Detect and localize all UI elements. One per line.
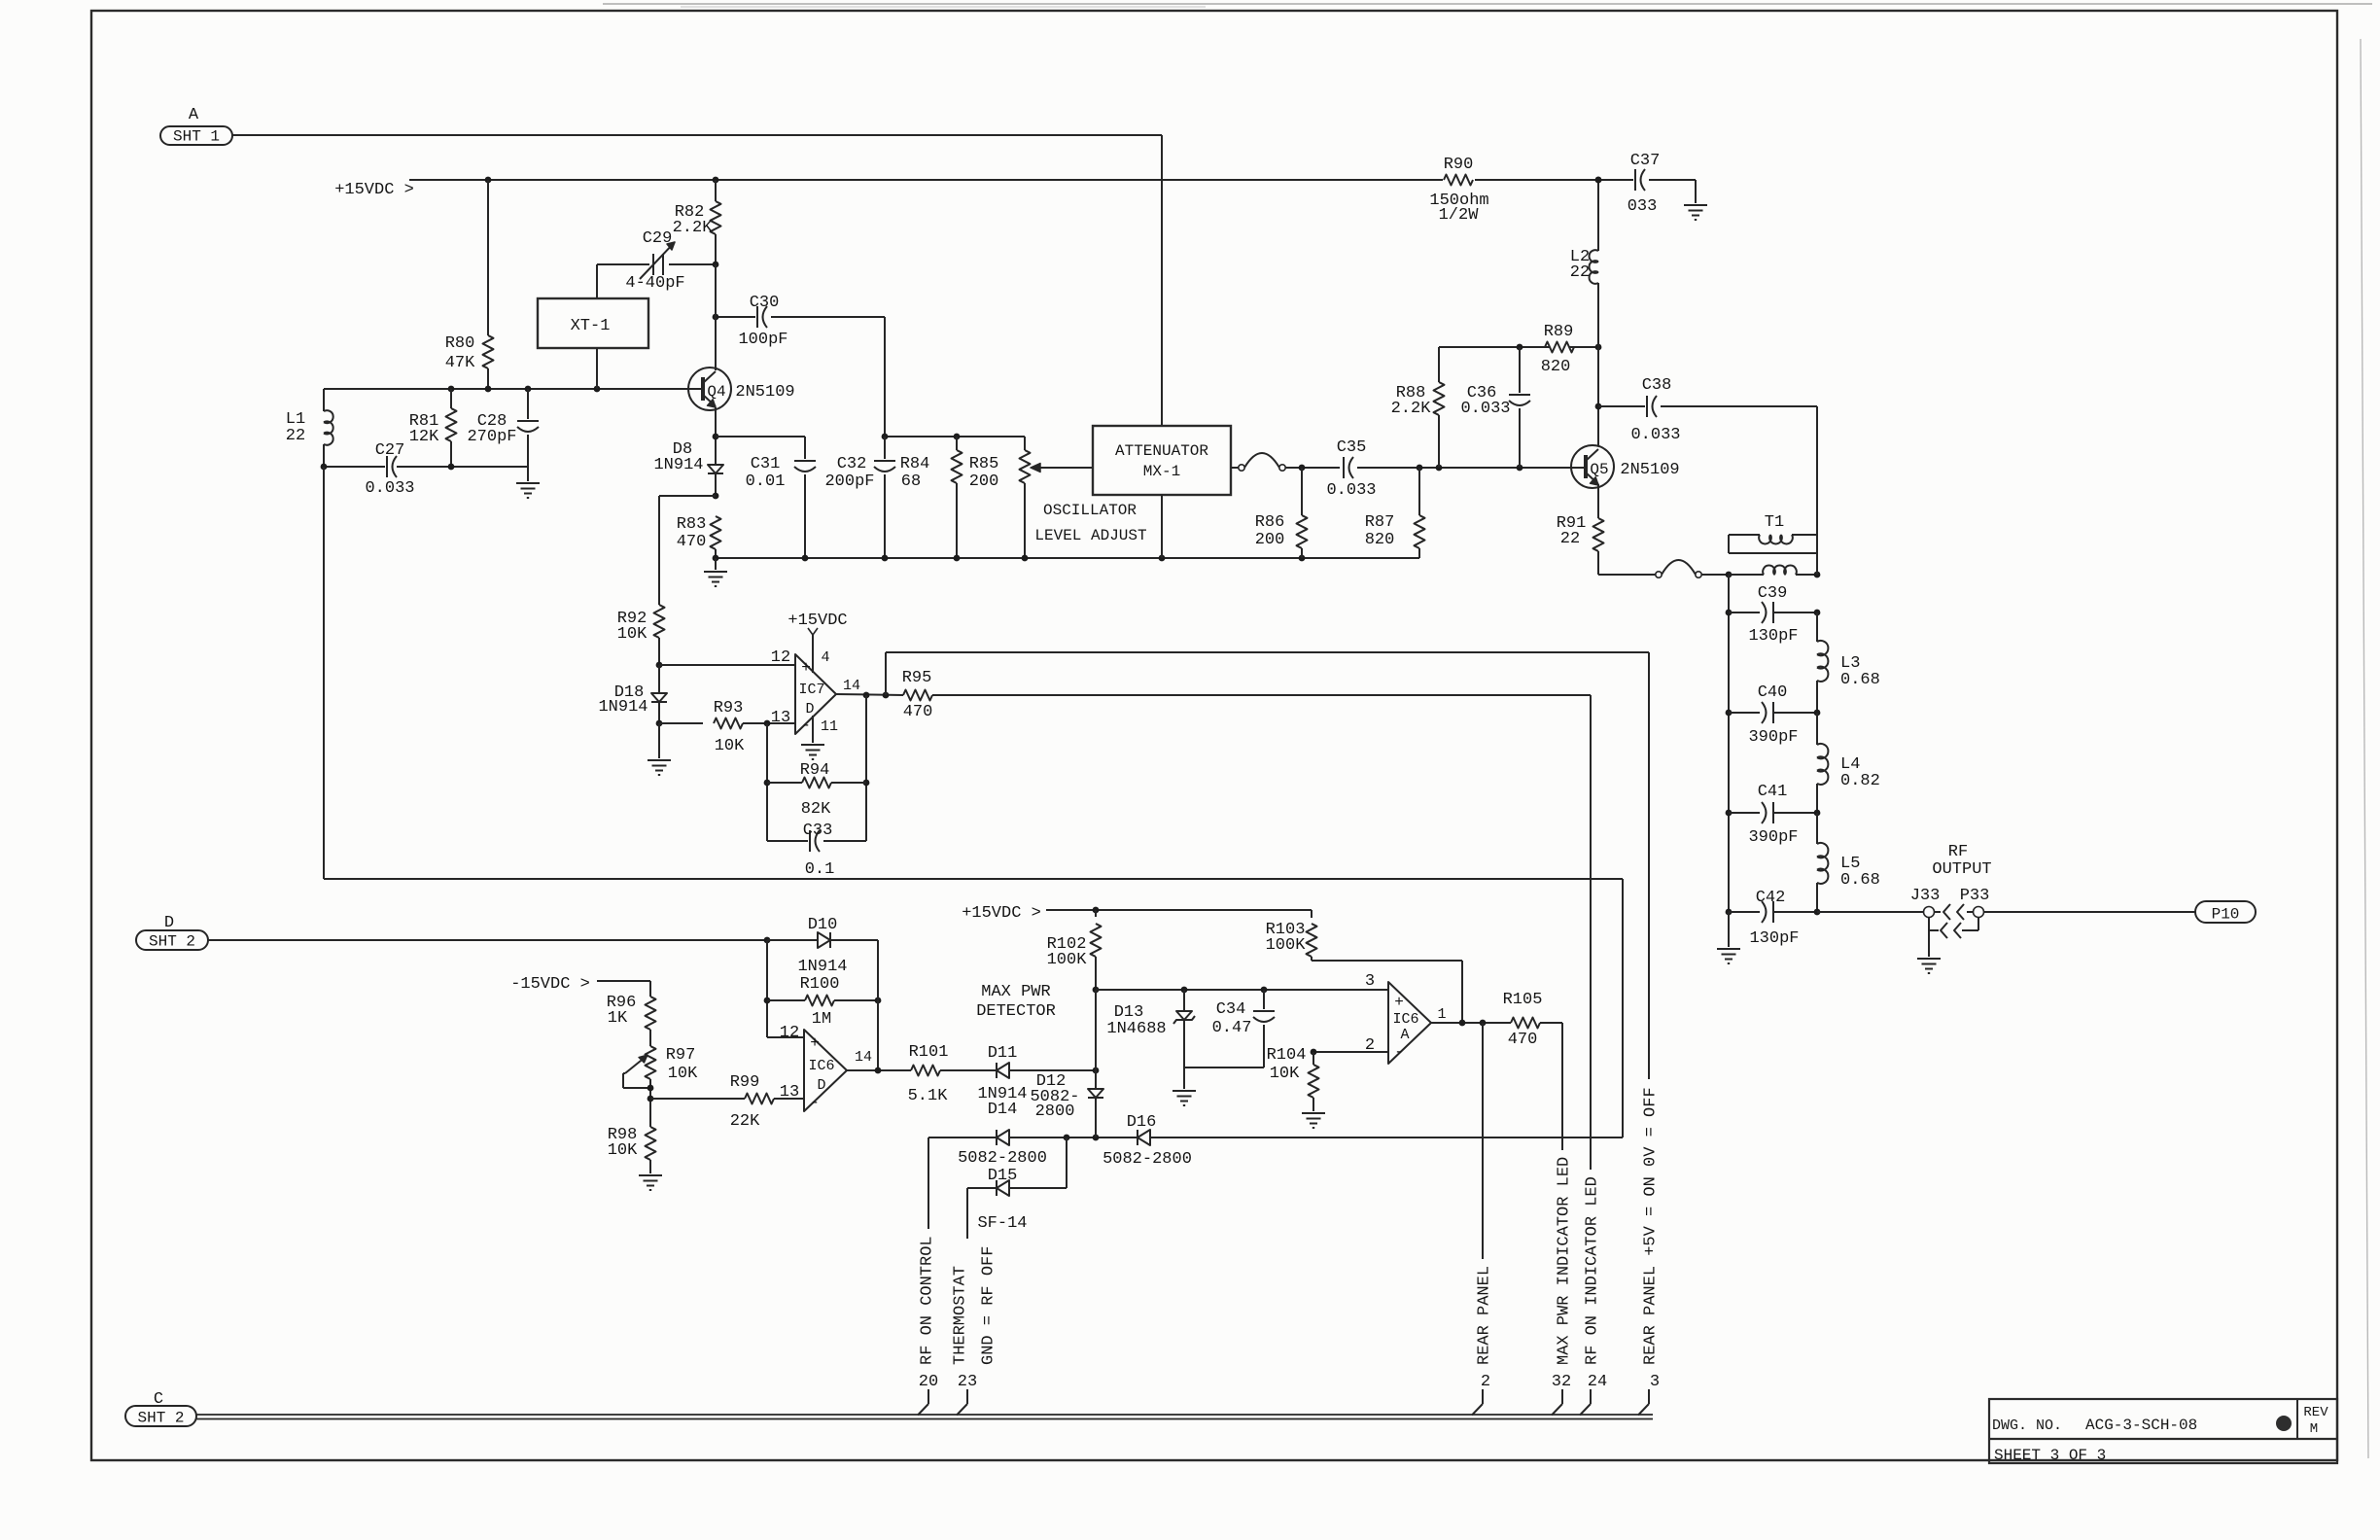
capacitor C34 <box>1212 990 1275 1067</box>
svg-text:D11: D11 <box>988 1044 1018 1063</box>
svg-text:82K: 82K <box>801 800 831 819</box>
svg-text:D16: D16 <box>1127 1113 1157 1132</box>
wire IC7 output feedback riser to right rail <box>886 652 1649 695</box>
svg-text:14: 14 <box>843 678 860 694</box>
resistor R105 <box>1503 991 1562 1049</box>
svg-text:R101: R101 <box>909 1043 949 1062</box>
svg-text:2.2K: 2.2K <box>1391 400 1432 418</box>
wire filter left rail <box>1726 575 1732 915</box>
title block <box>1989 1399 2337 1464</box>
svg-text:47K: 47K <box>445 354 475 372</box>
svg-text:RF ON INDICATOR LED: RF ON INDICATOR LED <box>1584 1176 1602 1365</box>
op-amp IC6 section D <box>780 1024 872 1111</box>
zener diode D13 1N4688 <box>1106 990 1195 1067</box>
resistor R95 <box>902 669 1591 721</box>
inductor L4 <box>1817 713 1880 813</box>
wire IC6A pin 2 row <box>1311 1049 1388 1056</box>
svg-text:DWG. NO.: DWG. NO. <box>1992 1417 2062 1434</box>
svg-text:0.68: 0.68 <box>1840 671 1880 689</box>
svg-text:1: 1 <box>1437 1006 1446 1023</box>
capacitor C28 <box>467 389 539 467</box>
svg-text:1N914: 1N914 <box>598 698 647 717</box>
svg-text:4: 4 <box>821 649 829 666</box>
diode D18 1N914 <box>598 665 667 723</box>
svg-text:REAR PANEL: REAR PANEL <box>1476 1266 1494 1365</box>
svg-text:C35: C35 <box>1337 438 1367 457</box>
resistor R87 <box>1365 468 1425 558</box>
svg-text:R99: R99 <box>730 1073 760 1092</box>
svg-text:R80: R80 <box>445 334 475 353</box>
wire Q5 base rail <box>1285 465 1584 472</box>
svg-text:033: 033 <box>1627 197 1658 216</box>
svg-text:D: D <box>817 1077 825 1094</box>
wire oscillator common rail <box>713 555 1419 562</box>
connector chevrons J33-P33 <box>1929 904 1978 938</box>
svg-text:12: 12 <box>780 1024 799 1042</box>
svg-text:22: 22 <box>1570 263 1590 282</box>
node D sheet connector SHT 2 <box>136 914 208 951</box>
svg-text:C30: C30 <box>750 294 780 312</box>
wire REAR PANEL +5V output pin 3 <box>1638 652 1661 1416</box>
svg-text:C31: C31 <box>751 455 781 473</box>
svg-text:10K: 10K <box>715 737 745 755</box>
svg-text:2800: 2800 <box>1035 1102 1075 1121</box>
svg-text:SHT 2: SHT 2 <box>137 1410 184 1427</box>
capacitor C35 <box>1326 438 1376 500</box>
svg-text:-15VDC >: -15VDC > <box>510 975 590 994</box>
svg-text:+15VDC >: +15VDC > <box>334 181 414 199</box>
transistor Q5 2N5109 <box>1571 445 1680 488</box>
wire Q4 base rail <box>324 386 701 393</box>
svg-text:10K: 10K <box>668 1065 698 1083</box>
resistor R94 <box>767 761 866 819</box>
capacitor C41 <box>1729 783 1820 847</box>
svg-text:R100: R100 <box>800 975 840 994</box>
resistor R86 <box>1255 468 1308 558</box>
svg-text:+15VDC: +15VDC <box>787 612 847 630</box>
svg-text:DETECTOR: DETECTOR <box>976 1002 1056 1021</box>
svg-text:R93: R93 <box>714 699 744 717</box>
svg-text:13: 13 <box>771 709 790 727</box>
svg-text:22: 22 <box>1560 530 1580 548</box>
resistor R96 <box>607 994 656 1046</box>
capacitor C29 variable <box>597 229 718 293</box>
svg-text:D10: D10 <box>808 916 838 934</box>
net label +15VDC top left <box>334 181 414 199</box>
svg-text:C41: C41 <box>1758 783 1788 801</box>
wire -15VDC feed <box>597 981 650 997</box>
wire rail riser to left loop <box>324 467 1623 1137</box>
svg-text:1K: 1K <box>608 1009 628 1028</box>
svg-text:C38: C38 <box>1642 376 1672 395</box>
svg-text:100K: 100K <box>1266 936 1307 955</box>
crystal XT-1 box <box>538 264 648 389</box>
svg-text:M: M <box>2310 1421 2318 1437</box>
svg-text:390pF: 390pF <box>1748 828 1798 847</box>
svg-text:+: + <box>1394 994 1404 1011</box>
resistor R100 <box>767 975 881 1029</box>
svg-text:22K: 22K <box>730 1112 760 1131</box>
wire net D from SHT2 bubble to D10 <box>208 937 818 944</box>
diode D16 5082-2800 <box>1102 1113 1192 1169</box>
svg-text:2N5109: 2N5109 <box>735 383 794 402</box>
wire C32 R84 R85 top rail <box>882 434 1025 440</box>
svg-text:OUTPUT: OUTPUT <box>1932 860 1991 879</box>
node P10 sheet connector <box>2195 901 2256 924</box>
wire IC7 pin 11 to ground <box>812 716 814 743</box>
svg-text:LEVEL ADJUST: LEVEL ADJUST <box>1034 527 1146 544</box>
wire D10 R100 left rail <box>764 940 804 1037</box>
svg-text:IC6: IC6 <box>808 1058 834 1074</box>
svg-text:REAR PANEL +5V = ON 0V = OFF: REAR PANEL +5V = ON 0V = OFF <box>1642 1087 1661 1365</box>
connector P33 <box>1960 887 1990 930</box>
svg-text:820: 820 <box>1365 531 1395 549</box>
svg-text:MAX PWR INDICATOR LED: MAX PWR INDICATOR LED <box>1556 1157 1574 1365</box>
wire D13 C34 bottom row <box>1184 1067 1264 1068</box>
svg-text:100pF: 100pF <box>738 331 787 349</box>
diode D15 SF-14 <box>967 1137 1067 1233</box>
svg-text:13: 13 <box>780 1083 799 1102</box>
net label -15VDC <box>510 975 590 994</box>
svg-text:SHT 2: SHT 2 <box>149 933 195 951</box>
svg-text:MX-1: MX-1 <box>1143 463 1180 480</box>
svg-text:1M: 1M <box>812 1010 831 1029</box>
svg-text:2.2K: 2.2K <box>673 219 714 237</box>
resistor R93 <box>659 699 795 755</box>
svg-text:0.033: 0.033 <box>1630 426 1680 444</box>
capacitor C33 <box>767 822 866 879</box>
svg-text:2: 2 <box>1481 1373 1490 1391</box>
svg-text:C39: C39 <box>1758 584 1788 603</box>
wire R94 C33 feedback right rail <box>863 695 870 841</box>
resistor R81 <box>409 389 457 467</box>
svg-text:+15VDC >: +15VDC > <box>962 904 1041 923</box>
op-amp IC7 section D <box>771 648 860 735</box>
svg-text:200: 200 <box>969 472 999 491</box>
svg-text:D: D <box>805 701 814 717</box>
svg-text:100K: 100K <box>1047 951 1088 969</box>
inductor L2 <box>1570 177 1602 347</box>
svg-text:1N914: 1N914 <box>797 958 847 976</box>
svg-text:ATTENUATOR: ATTENUATOR <box>1115 442 1208 460</box>
capacitor C38 <box>1598 376 1817 535</box>
net label +15VDC at IC7 pin 4 <box>787 612 847 673</box>
svg-text:OSCILLATOR: OSCILLATOR <box>1043 502 1137 519</box>
capacitor C27 <box>365 441 414 498</box>
label MAX PWR DETECTOR <box>976 983 1056 1021</box>
svg-text:R90: R90 <box>1444 156 1474 174</box>
diode D10 1N914 <box>767 916 878 976</box>
resistor R104 <box>1267 1046 1319 1111</box>
svg-text:R94: R94 <box>800 761 830 780</box>
resistor R102 <box>1047 910 1102 990</box>
svg-text:R95: R95 <box>902 669 932 687</box>
resistor R103 <box>1266 910 1317 961</box>
svg-text:SF-14: SF-14 <box>977 1214 1027 1233</box>
wire D8 to R92 branch <box>659 493 718 605</box>
wire R98 to ground <box>649 1160 651 1173</box>
svg-text:R83: R83 <box>677 515 707 534</box>
resistor R90 <box>1429 156 1488 225</box>
svg-text:D14: D14 <box>988 1101 1018 1119</box>
wire Q4 collector <box>715 264 717 370</box>
inductor L1 <box>286 389 333 467</box>
svg-text:R86: R86 <box>1255 513 1285 532</box>
svg-text:C37: C37 <box>1630 152 1661 170</box>
wire IC6D output row <box>847 1067 911 1074</box>
svg-text:0.01: 0.01 <box>746 472 786 491</box>
wire R103 feedback to IC6A output <box>1312 961 1462 1023</box>
svg-text:68: 68 <box>901 472 921 491</box>
svg-text:470: 470 <box>1508 1031 1538 1049</box>
svg-text:P10: P10 <box>2212 906 2240 924</box>
diode D14 5082-2800 <box>958 1101 1047 1168</box>
ground below D18 <box>647 760 671 775</box>
svg-text:270pF: 270pF <box>467 428 516 446</box>
potentiometer R85 <box>969 437 1031 558</box>
capacitor C32 <box>824 437 895 558</box>
svg-text:470: 470 <box>903 703 933 721</box>
capacitor C42 <box>1729 889 1820 948</box>
inductor L5 <box>1817 813 1880 912</box>
wire D10 R100 right rail <box>877 940 879 1070</box>
svg-text:0.47: 0.47 <box>1212 1019 1252 1037</box>
wire Q5 emitter hop to T1 <box>1598 560 1732 577</box>
svg-text:T1: T1 <box>1765 513 1784 532</box>
ground below C37 <box>1684 205 1707 220</box>
svg-text:R84: R84 <box>900 455 930 473</box>
resistor R83 <box>677 515 721 558</box>
node C sheet connector SHT 2 bus <box>125 1390 196 1427</box>
wire D18 to ground <box>656 720 663 758</box>
wire IC6A output row <box>1431 1020 1511 1027</box>
svg-text:R85: R85 <box>969 455 999 473</box>
wire IC7 output node <box>836 692 903 699</box>
ground below D13 <box>1172 1067 1196 1105</box>
svg-text:10K: 10K <box>608 1141 638 1160</box>
wire R92 node to IC7 pin 12 <box>656 662 795 669</box>
wire RF ON CONTROL output pin 20 <box>918 1137 938 1416</box>
svg-text:C27: C27 <box>375 441 405 460</box>
svg-text:24: 24 <box>1588 1373 1607 1391</box>
svg-text:0.82: 0.82 <box>1840 772 1880 790</box>
capacitor C40 <box>1729 683 1820 747</box>
ground below filter ladder <box>1717 912 1740 963</box>
wire control diode rail <box>928 1135 1623 1141</box>
svg-text:C34: C34 <box>1216 1000 1246 1019</box>
svg-text:A: A <box>189 106 199 124</box>
svg-text:200pF: 200pF <box>824 472 874 491</box>
svg-text:12K: 12K <box>409 428 439 446</box>
svg-text:+: + <box>810 1034 820 1052</box>
svg-text:10K: 10K <box>617 625 647 644</box>
svg-text:D15: D15 <box>988 1167 1018 1185</box>
ground below J33 <box>1917 959 1941 973</box>
inductor L3 <box>1817 612 1880 713</box>
wire +15VDC rail <box>409 177 1598 184</box>
wire net C bus double line <box>196 1415 1653 1419</box>
ground below R98 <box>639 1175 662 1190</box>
svg-text:1/2W: 1/2W <box>1439 206 1480 225</box>
resistor R84 <box>900 437 962 558</box>
capacitor C31 <box>746 437 816 558</box>
resistor R101 <box>908 1043 997 1105</box>
wire +15VDC lower rail <box>1046 907 1312 914</box>
svg-text:5.1K: 5.1K <box>908 1087 949 1105</box>
wire max power detector node pin 3 row <box>1093 987 1388 994</box>
svg-text:820: 820 <box>1541 358 1571 376</box>
svg-text:Q5: Q5 <box>1590 461 1608 478</box>
wire net A from SHT1 bubble to attenuator input <box>232 135 1162 426</box>
svg-text:R89: R89 <box>1544 323 1574 341</box>
svg-text:11: 11 <box>821 718 838 735</box>
wire T1 right vertical <box>1816 535 1818 575</box>
wire RF ON INDICATOR LED output pin 24 <box>1580 695 1607 1416</box>
svg-text:5082-2800: 5082-2800 <box>1102 1150 1192 1169</box>
label RF OUTPUT <box>1932 843 1991 879</box>
diode D8 1N914 <box>653 440 723 496</box>
ground below IC7 <box>801 745 824 759</box>
svg-text:THERMOSTAT: THERMOSTAT <box>952 1266 970 1365</box>
wire Q4 emitter to C31 <box>713 407 805 465</box>
wire R97 node to R99 <box>647 1096 745 1102</box>
svg-text:C42: C42 <box>1756 889 1786 907</box>
diode D12 5082-2800 <box>1030 1072 1103 1137</box>
svg-text:10K: 10K <box>1270 1065 1300 1083</box>
net label +15VDC lower <box>962 904 1041 923</box>
svg-text:3: 3 <box>1650 1373 1660 1391</box>
wire THERMOSTAT output pin 23 <box>952 1188 998 1416</box>
svg-text:32: 32 <box>1552 1373 1571 1391</box>
svg-text:0.033: 0.033 <box>365 479 414 498</box>
svg-text:20: 20 <box>919 1373 938 1391</box>
svg-text:C33: C33 <box>803 822 833 840</box>
wire R94 C33 feedback left rail <box>764 723 771 841</box>
wire P33 to P10 <box>1983 911 2195 913</box>
wire C27 row <box>321 464 528 471</box>
svg-text:Q4: Q4 <box>707 383 725 401</box>
svg-text:+: + <box>801 659 811 677</box>
ground below R104 <box>1302 1113 1325 1128</box>
svg-text:R105: R105 <box>1503 991 1543 1009</box>
transformer T1 <box>1729 513 1820 577</box>
capacitor C39 <box>1729 584 1820 646</box>
svg-text:C29: C29 <box>643 229 673 248</box>
svg-text:R87: R87 <box>1365 513 1395 532</box>
label oscillator level adjust <box>1034 502 1146 544</box>
capacitor C36 <box>1460 347 1530 468</box>
svg-text:130pF: 130pF <box>1748 627 1798 646</box>
svg-text:12: 12 <box>771 648 790 667</box>
wire L2 to C38 node to Q5 collector <box>1595 347 1602 446</box>
resistor R98 <box>608 1126 656 1160</box>
resistor R82 <box>673 180 721 264</box>
svg-text:IC7: IC7 <box>798 682 824 698</box>
svg-text:1N914: 1N914 <box>653 456 703 474</box>
svg-text:22: 22 <box>286 427 305 445</box>
svg-text:ACG-3-SCH-08: ACG-3-SCH-08 <box>2085 1417 2197 1434</box>
wire REAR PANEL output pin 2 <box>1472 1023 1494 1416</box>
svg-text:1N4688: 1N4688 <box>1106 1020 1166 1038</box>
diode D11 1N914 <box>977 1044 1099 1103</box>
svg-text:2N5109: 2N5109 <box>1620 461 1679 479</box>
svg-text:XT-1: XT-1 <box>571 317 611 335</box>
svg-text:-: - <box>801 717 811 734</box>
svg-text:23: 23 <box>958 1373 977 1391</box>
resistor R80 <box>445 180 494 389</box>
svg-text:-: - <box>1394 1043 1404 1061</box>
resistor R92 <box>617 605 665 665</box>
wire attenuator output hop <box>1231 453 1285 471</box>
resistor R99 <box>730 1073 804 1131</box>
transistor Q4 2N5109 <box>688 367 795 410</box>
wire R102 column through D12 <box>1095 990 1097 1089</box>
svg-text:0.68: 0.68 <box>1840 871 1880 890</box>
resistor R91 <box>1557 484 1604 575</box>
svg-text:C40: C40 <box>1758 683 1788 702</box>
svg-text:A: A <box>1400 1027 1409 1043</box>
svg-text:IC6: IC6 <box>1392 1011 1418 1028</box>
ground below C28 row <box>516 467 540 498</box>
svg-text:RF ON CONTROL: RF ON CONTROL <box>919 1236 937 1365</box>
svg-text:MAX PWR: MAX PWR <box>981 983 1050 1001</box>
wire RF output line <box>1817 911 1924 913</box>
svg-text:130pF: 130pF <box>1749 929 1799 948</box>
svg-text:0.033: 0.033 <box>1460 400 1510 418</box>
svg-text:390pF: 390pF <box>1748 728 1798 747</box>
svg-text:P33: P33 <box>1960 887 1990 905</box>
svg-text:14: 14 <box>855 1049 872 1066</box>
capacitor C37 <box>1595 152 1696 216</box>
node A sheet connector SHT 1 <box>160 106 232 146</box>
potentiometer R97 <box>623 1046 698 1127</box>
svg-text:-: - <box>810 1094 820 1111</box>
svg-text:0.033: 0.033 <box>1326 481 1376 500</box>
svg-text:REV: REV <box>2303 1405 2328 1420</box>
svg-text:J33: J33 <box>1910 887 1941 905</box>
svg-text:0.1: 0.1 <box>805 860 835 879</box>
connector J33 <box>1910 887 1941 957</box>
wire MAX PWR INDICATOR LED output pin 32 <box>1552 1023 1574 1416</box>
svg-text:R97: R97 <box>666 1046 696 1065</box>
resistor R88 <box>1391 347 1445 468</box>
wire R89 branch row <box>1439 344 1601 351</box>
op-amp IC6 section A <box>1365 972 1447 1064</box>
wiper arrow from attenuator to R85 <box>1031 464 1093 472</box>
ground below R83 rail <box>704 558 727 586</box>
svg-text:R104: R104 <box>1267 1046 1307 1065</box>
svg-text:SHEET 3 OF 3: SHEET 3 OF 3 <box>1994 1447 2106 1464</box>
svg-text:5082-2800: 5082-2800 <box>958 1149 1047 1168</box>
svg-text:GND = RF OFF: GND = RF OFF <box>980 1246 998 1365</box>
svg-text:C32: C32 <box>837 455 867 473</box>
svg-text:200: 200 <box>1255 531 1285 549</box>
svg-text:RF: RF <box>1948 843 1968 861</box>
svg-text:SHT 1: SHT 1 <box>173 128 220 146</box>
capacitor C30 <box>713 294 885 437</box>
svg-text:4-40pF: 4-40pF <box>625 274 684 293</box>
resistor R89 <box>1541 323 1574 376</box>
svg-text:470: 470 <box>677 533 707 551</box>
attenuator MX-1 box <box>1093 426 1231 558</box>
svg-text:3: 3 <box>1365 972 1375 991</box>
